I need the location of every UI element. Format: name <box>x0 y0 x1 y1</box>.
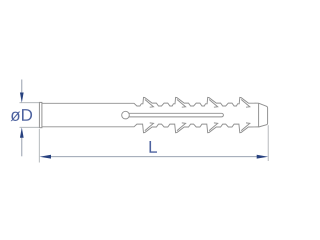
extension line oD bottom <box>20 126 40 128</box>
oD dimension line upper <box>21 80 23 94</box>
label oD glyph D <box>22 109 32 121</box>
oD upper arrow <box>20 93 24 103</box>
nail slot <box>129 113 224 117</box>
tip cone <box>259 103 268 127</box>
wall plug bottom outline <box>42 124 259 133</box>
L left arrow <box>40 155 52 159</box>
extension line L left <box>38 129 40 163</box>
tip base line <box>258 103 260 127</box>
oD lower arrow <box>20 127 24 137</box>
nail slot circle <box>122 111 130 119</box>
L right arrow <box>257 155 269 159</box>
fin blades bottom <box>145 123 250 131</box>
extension line L right <box>267 125 269 161</box>
label oD glyph o-slash <box>11 112 21 122</box>
wall plug collar <box>39 102 42 127</box>
wall plug top outline <box>42 97 259 106</box>
oD dimension line lower <box>21 137 23 157</box>
fin blades top <box>145 100 250 108</box>
label L glyph <box>149 141 156 153</box>
extension line oD top <box>20 102 40 104</box>
L dimension line <box>50 156 258 158</box>
